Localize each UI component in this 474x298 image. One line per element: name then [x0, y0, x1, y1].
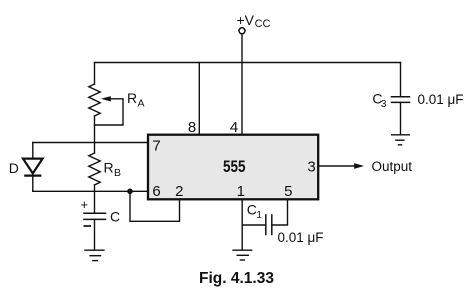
svg-text:A: A — [138, 98, 145, 110]
label RA — [127, 90, 145, 110]
svg-text:2: 2 — [175, 183, 183, 200]
svg-text:555: 555 — [223, 158, 246, 176]
svg-text:R: R — [104, 160, 114, 176]
IC U1 555 timer body — [148, 135, 318, 200]
node +VCC terminal circle — [239, 28, 245, 34]
wire capacitor C bottom vertical — [94, 219, 96, 250]
svg-text:+: + — [81, 197, 89, 212]
wire diode anode vertical — [32, 143, 34, 159]
wire capacitor C top vertical — [94, 191, 96, 213]
wire VCC vertical to pin 4 — [241, 34, 243, 135]
svg-text:8: 8 — [188, 119, 196, 136]
svg-text:C: C — [110, 209, 120, 225]
wire RA bottom vertical to RB — [94, 116, 96, 153]
svg-text:R: R — [127, 90, 137, 106]
capacitor C3 plates — [392, 96, 410, 98]
resistor RB zigzag — [89, 153, 100, 185]
wire C3 top vertical — [400, 63, 402, 97]
svg-text:Output: Output — [372, 159, 413, 174]
svg-text:0.01 μF: 0.01 μF — [418, 92, 464, 107]
svg-text:Fig. 4.1.33: Fig. 4.1.33 — [199, 270, 274, 287]
ground (below C3) — [391, 135, 410, 145]
svg-text:3: 3 — [307, 158, 315, 175]
wire pin 7 horizontal — [33, 142, 147, 144]
diode D — [23, 159, 43, 176]
label RB — [104, 160, 122, 180]
svg-text:C: C — [247, 201, 257, 217]
ground (below pin 1) — [232, 250, 252, 260]
svg-text:B: B — [114, 167, 121, 179]
svg-text:3: 3 — [381, 99, 387, 110]
wire diode cathode vertical — [32, 176, 34, 192]
wire C1 right branch to pin 5 — [272, 199, 288, 225]
ground (below C) — [84, 250, 104, 260]
label +VCC — [237, 12, 271, 30]
wire RB bottom vertical — [94, 185, 96, 191]
svg-text:0.01 μF: 0.01 μF — [278, 230, 324, 245]
svg-text:+V: +V — [237, 12, 255, 28]
svg-text:1: 1 — [237, 183, 245, 200]
resistor RA (rheostat) zigzag — [89, 84, 100, 116]
wire RA wiper loop — [95, 99, 124, 125]
svg-text:D: D — [9, 160, 19, 176]
wire pin 8 vertical — [198, 63, 200, 136]
wire pin 3 output — [319, 165, 355, 167]
RA wiper arrowhead — [101, 96, 111, 101]
capacitor C plates — [84, 212, 106, 214]
junction node at pin 6 / pin 2 — [127, 189, 133, 195]
wire pin 6 horizontal — [33, 190, 147, 192]
wire C1 left branch — [242, 224, 266, 226]
wire RA top vertical — [94, 63, 96, 85]
svg-text:5: 5 — [284, 183, 292, 200]
svg-text:7: 7 — [152, 138, 160, 155]
svg-text:4: 4 — [230, 119, 238, 136]
wire top horizontal rail — [95, 62, 401, 64]
label C3 — [372, 91, 387, 111]
capacitor C1 plates — [265, 215, 267, 235]
svg-text:CC: CC — [255, 18, 271, 30]
svg-text:6: 6 — [152, 183, 160, 200]
output arrowhead — [354, 163, 364, 169]
wire pin 1 vertical — [241, 199, 243, 250]
wire C3 bottom vertical — [400, 102, 402, 134]
label C1 — [247, 201, 263, 221]
wire pin 2 loop — [130, 191, 180, 221]
svg-text:1: 1 — [256, 210, 262, 221]
